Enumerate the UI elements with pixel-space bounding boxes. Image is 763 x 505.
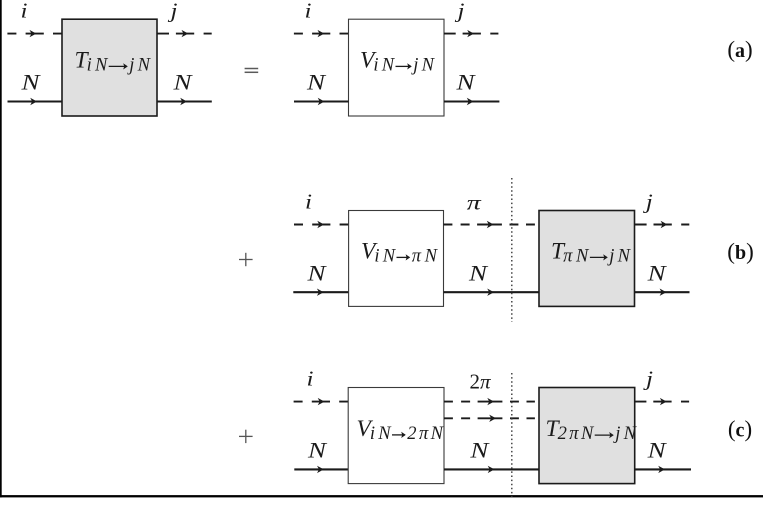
svg-text:iN: iN xyxy=(374,247,396,267)
svg-text:N: N xyxy=(646,437,667,462)
svg-text:(b): (b) xyxy=(727,239,753,264)
svg-text:j: j xyxy=(642,189,653,213)
arrow nucleon mid (b) xyxy=(487,289,494,296)
wire: incoming pion i (b) xyxy=(294,224,349,226)
arrow pion i (b) xyxy=(317,221,324,228)
svg-text:πN: πN xyxy=(412,247,439,267)
arrow nucleon mid (c) xyxy=(488,466,495,473)
V box (b) V_iN->piN xyxy=(349,211,444,307)
plus sign (b) xyxy=(239,253,253,266)
svg-text:N: N xyxy=(646,260,667,285)
arrow nucleon in (c) xyxy=(317,466,324,473)
left figure border xyxy=(0,0,2,497)
svg-text:j: j xyxy=(167,0,178,23)
svg-text:iN: iN xyxy=(87,56,109,76)
svg-text:N: N xyxy=(20,70,41,95)
arrow pion2 mid (c) xyxy=(489,415,496,422)
equals sign xyxy=(245,69,259,73)
V box (c) V_iN->2piN xyxy=(348,388,444,484)
wire: outgoing nucleon (a) xyxy=(157,100,212,102)
svg-text:(a): (a) xyxy=(727,37,752,62)
wire: intermediate nucleon (c) xyxy=(444,468,539,470)
wire: outgoing pion j (a2) xyxy=(444,33,498,35)
wire: outgoing pion j (a) xyxy=(157,33,211,35)
wire: incoming nucleon (b) xyxy=(293,291,348,293)
wire: intermediate pion 2 (c) xyxy=(444,417,535,419)
svg-text:i: i xyxy=(307,367,314,391)
svg-text:jN: jN xyxy=(607,247,631,267)
wire: outgoing pion j (c) xyxy=(635,401,689,403)
arrow on pion j (a2) xyxy=(467,30,474,37)
wire: outgoing pion j (b) xyxy=(635,224,689,226)
svg-text:πN: πN xyxy=(563,247,590,267)
label T_2piN->jN xyxy=(546,416,638,444)
arrow pion1 mid (c) xyxy=(487,398,494,405)
arrow nucleon in (b) xyxy=(317,289,324,296)
wire: incoming pion i (a2) xyxy=(294,33,349,35)
wire: outgoing nucleon (a2) xyxy=(444,100,499,102)
dotted cut line (c) xyxy=(511,373,513,497)
arrow on nucleon in (a) xyxy=(30,98,37,105)
T box (a) T_iN->jN xyxy=(62,19,157,116)
svg-text:N: N xyxy=(455,70,476,95)
wire: intermediate pion 1 (c) xyxy=(444,401,535,403)
wire: outgoing nucleon (b) xyxy=(635,291,690,293)
arrow pion j (c) xyxy=(660,398,667,405)
svg-text:i: i xyxy=(305,0,312,23)
arrow pion j (b) xyxy=(661,221,668,228)
svg-text:iN: iN xyxy=(370,424,392,444)
label T_piN->jN xyxy=(551,239,632,267)
wire: incoming nucleon (a) xyxy=(8,100,63,102)
plus sign (c) xyxy=(239,430,253,443)
arrow nucleon out (a2) xyxy=(467,98,474,105)
wire: incoming pion i (a) xyxy=(7,33,62,35)
svg-text:j: j xyxy=(454,0,465,23)
svg-text:π: π xyxy=(467,191,482,215)
T box (b) T_piN->jN xyxy=(539,211,635,307)
arrow on pion i (a) xyxy=(30,30,37,37)
arrow on pion i (a2) xyxy=(318,30,325,37)
arrow on pion j (a) xyxy=(182,30,189,37)
svg-text:i: i xyxy=(21,0,28,23)
label V_iN->2piN xyxy=(357,416,445,444)
svg-text:2π: 2π xyxy=(469,369,491,393)
label V_iN->jN xyxy=(360,48,436,76)
svg-text:(c): (c) xyxy=(728,417,752,442)
svg-text:jN: jN xyxy=(613,424,637,444)
svg-text:jN: jN xyxy=(411,56,435,76)
arrow pion mid (b) xyxy=(487,221,494,228)
arrow on nucleon out (a) xyxy=(180,98,187,105)
svg-text:j: j xyxy=(642,367,653,391)
svg-text:N: N xyxy=(172,70,193,95)
wire: outgoing nucleon (c) xyxy=(635,468,691,470)
wire: intermediate pion (b) xyxy=(444,224,535,226)
wire: incoming nucleon (c) xyxy=(294,468,348,470)
svg-text:N: N xyxy=(469,437,490,462)
svg-text:i: i xyxy=(305,189,312,213)
svg-text:N: N xyxy=(306,70,327,95)
svg-text:2πN: 2πN xyxy=(558,424,595,444)
svg-text:jN: jN xyxy=(127,56,151,76)
label T_iN->jN xyxy=(75,48,152,76)
arrow nucleon in (a2) xyxy=(318,98,325,105)
dotted cut line (b) xyxy=(511,178,513,322)
bottom figure border xyxy=(0,495,763,497)
arrow nucleon out (c) xyxy=(658,466,665,473)
T box (c) T_2piN->jN xyxy=(539,388,635,484)
svg-text:N: N xyxy=(468,260,489,285)
wire: intermediate nucleon (b) xyxy=(444,291,540,293)
svg-text:2πN: 2πN xyxy=(407,424,444,444)
V box (a) V_iN->jN xyxy=(349,19,445,116)
svg-text:iN: iN xyxy=(373,56,395,76)
arrow nucleon out (b) xyxy=(660,289,667,296)
svg-text:N: N xyxy=(307,437,328,462)
label V_iN->piN xyxy=(361,239,439,267)
wire: incoming pion i (c) xyxy=(294,401,349,403)
wire: incoming nucleon (a2) xyxy=(294,100,349,102)
svg-text:N: N xyxy=(306,260,327,285)
arrow pion i (c) xyxy=(318,398,325,405)
